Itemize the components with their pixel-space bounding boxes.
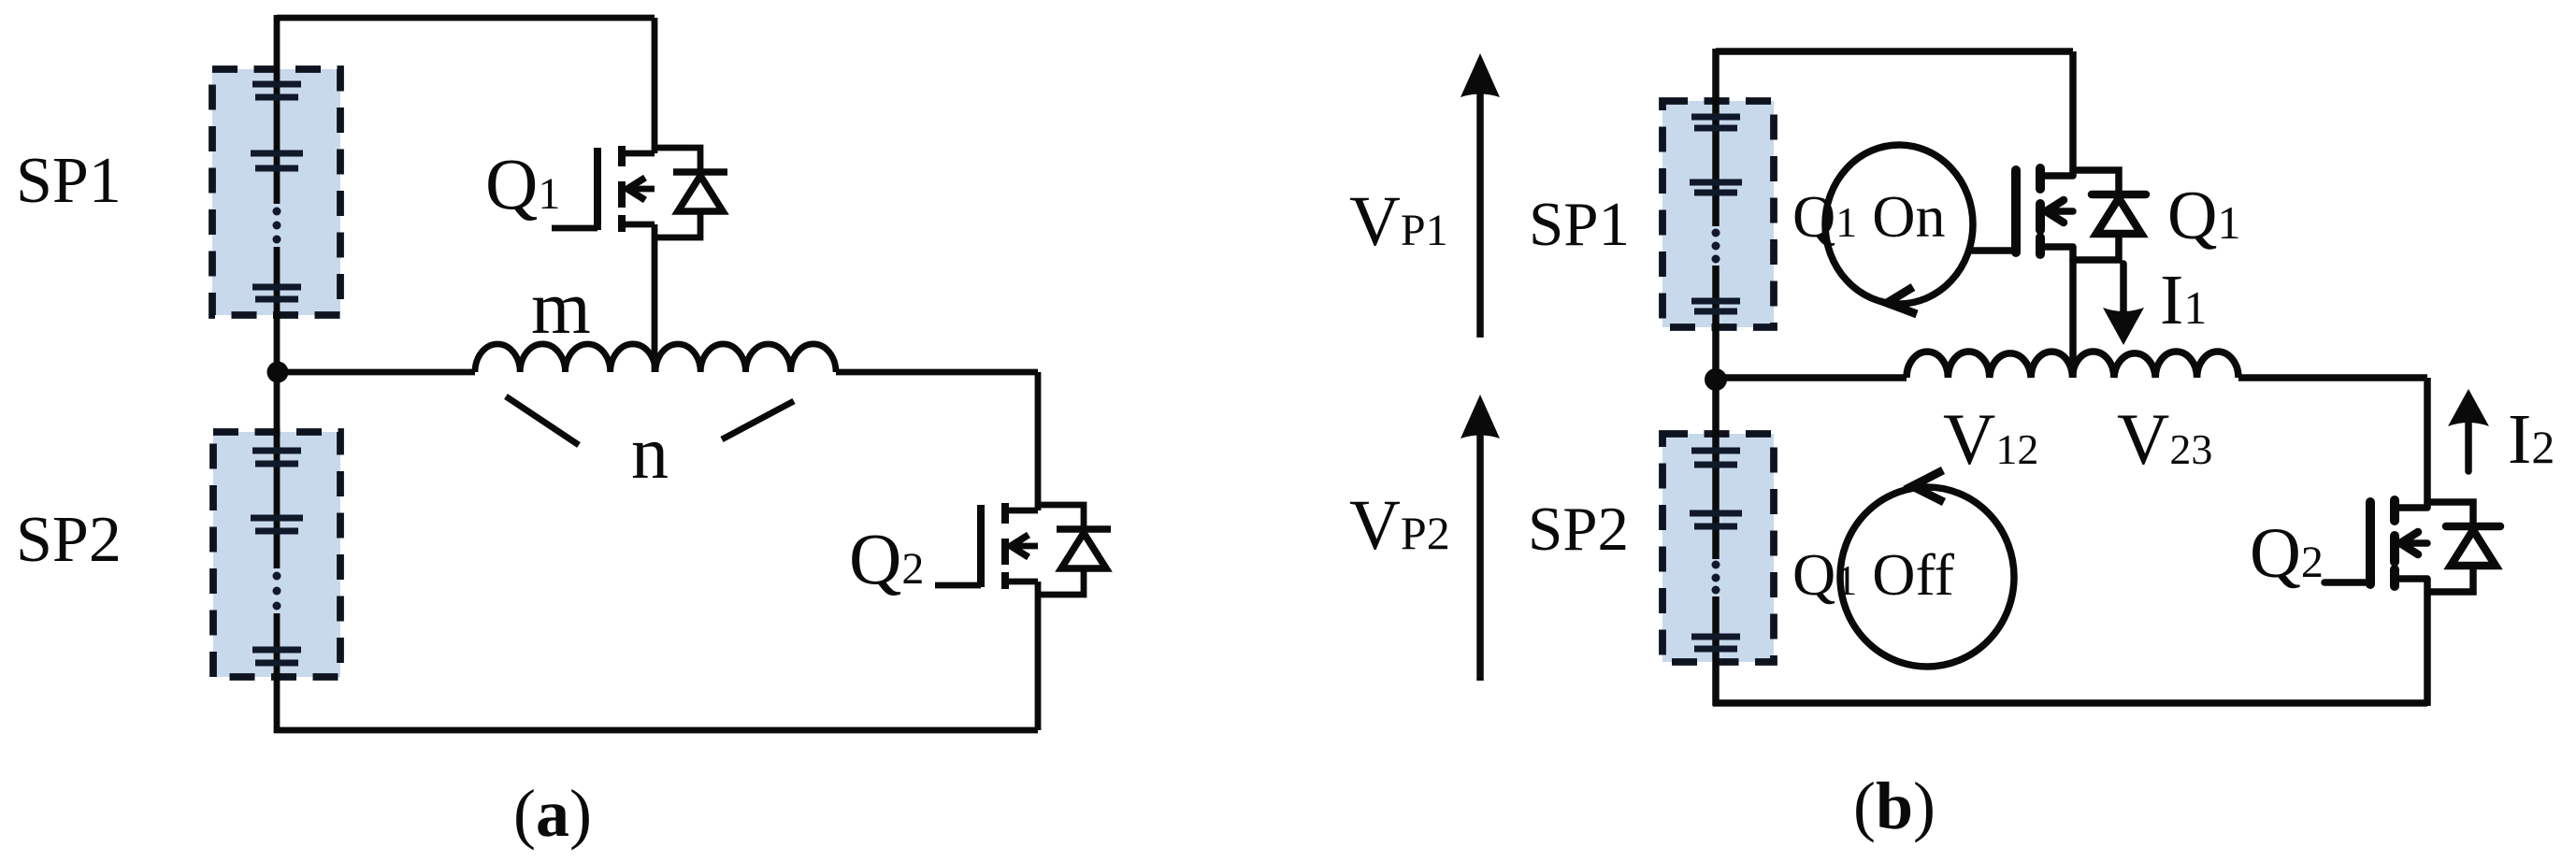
node: junction dot (a) [267,362,289,383]
svg-text:Q1 Off: Q1 Off [1792,541,1955,608]
loop arrow Q1 On (b) [1825,145,1973,304]
svg-text:m: m [531,265,591,350]
tap slash left (a) [506,396,579,445]
wire: junction to inductor (b) [1716,374,1907,381]
wire: left vertical middle (a) [274,247,281,568]
battery SP2 (b) dashed box [1662,434,1774,662]
wire: Q2 source vertical (b) [2424,579,2431,706]
wire: left vertical lower (a) [274,613,281,733]
battery SP2 (a) dots [273,572,281,611]
svg-text:SP1: SP1 [16,145,122,217]
svg-text:Q1 On: Q1 On [1792,183,1945,250]
svg-text:Q1: Q1 [485,143,560,224]
svg-text:VP2: VP2 [1349,486,1450,565]
svg-text:n: n [631,412,669,495]
wire: Q2 drain vertical (a) [1035,372,1042,510]
wire: top rail (a) [277,15,655,22]
arrow VP2 (b) [1476,435,1484,681]
battery SP1 (a) cells [251,84,303,299]
inductor (a) [475,344,836,372]
transistor Q2 (b) [2324,500,2500,592]
node: junction dot (b) [1705,368,1727,391]
arrow VP1 (b) [1476,93,1484,338]
svg-text:V12: V12 [1943,398,2038,480]
svg-text:(a): (a) [513,776,592,851]
wire: Q2 drain vertical (b) [2424,378,2431,508]
inductor (b) [1907,352,2238,378]
svg-text:Q1: Q1 [2167,178,2240,254]
battery SP2 (b) dots [1712,561,1720,595]
battery SP1 (b) dashed box [1662,101,1774,327]
battery SP2 (a) cells [251,451,303,663]
battery SP1 (a) dashed box [212,69,340,315]
arrow I2 (b) [2465,423,2472,471]
tap slash right (a) [722,401,794,439]
battery SP2 (a) dashed box [213,432,340,677]
battery SP1 (b) cells [1690,117,1742,311]
svg-text:VP1: VP1 [1349,182,1448,261]
wire: inductor to right corner (b) [2238,374,2427,381]
wire: left vertical middle (b) [1712,266,1720,559]
wire: Q1 source to inductor tap (a) [652,224,658,372]
wire: junction to inductor (a) [277,369,475,376]
wire: bottom rail (b) [1713,699,2427,707]
svg-text:I2: I2 [2508,400,2554,479]
svg-text:SP2: SP2 [1528,495,1629,564]
wire: Q1 drain vertical (b) [2069,51,2077,176]
transistor Q1 (a) [552,146,727,237]
svg-text:(b): (b) [1853,769,1936,843]
svg-text:Q2: Q2 [2250,514,2324,593]
transistor Q1 (b) [1970,168,2146,260]
battery SP2 (b) cells [1690,451,1742,649]
wire: Q1 source to inductor tap (b) [2069,247,2077,378]
loop arrow Q1 Off (b) [1840,487,2014,667]
wire: top rail (b) [1716,48,2073,55]
battery SP1 (a) dots [273,208,281,244]
svg-text:SP1: SP1 [1529,190,1630,259]
wire: left vertical upper (b) [1712,49,1720,226]
wire: Q2 source vertical (a) [1035,582,1042,730]
wire: left vertical lower (b) [1712,596,1720,706]
arrow I1 (b) [2120,264,2127,312]
wire: bottom rail (a) [274,727,1038,734]
wire: Q1 drain vertical (a) [652,18,658,153]
battery SP1 (b) dots [1712,229,1720,264]
svg-text:SP2: SP2 [16,504,122,576]
svg-text:V23: V23 [2117,398,2212,480]
wire: inductor to Q2 (a) [836,369,1038,376]
wire: left vertical upper (a) [274,15,281,204]
svg-text:I1: I1 [2160,261,2207,339]
svg-text:Q2: Q2 [849,518,924,599]
transistor Q2 (a) [935,503,1111,595]
